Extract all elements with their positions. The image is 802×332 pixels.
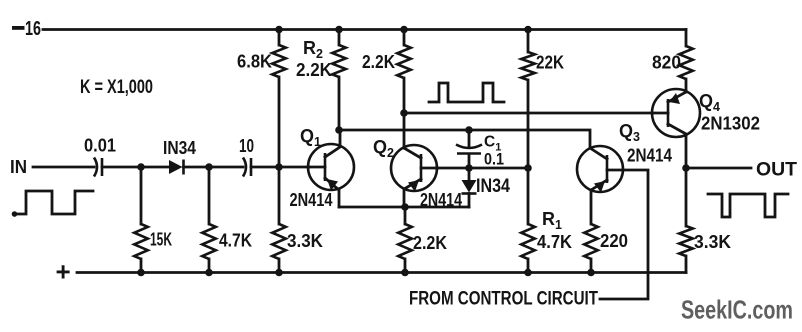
wire Q1 collector to C1 to Q3 collector bbox=[339, 130, 590, 148]
svg-text:6.8K: 6.8K bbox=[237, 52, 272, 72]
capacitor C1 0.1 bbox=[456, 134, 504, 169]
output waveform symbol bbox=[708, 194, 788, 217]
node junction emitters-2.2K bbox=[401, 203, 409, 211]
svg-text:2.2K: 2.2K bbox=[362, 52, 395, 72]
transistor Q1 2N414 bbox=[290, 126, 355, 210]
svg-text:IN34: IN34 bbox=[476, 176, 510, 197]
wire OUT lead bbox=[686, 167, 751, 170]
control pulse waveform symbol bbox=[429, 83, 504, 102]
resistor R2 2.2K bbox=[296, 38, 346, 80]
wire R1 bottom lead bbox=[527, 259, 530, 273]
resistor 2.2K emitter bbox=[398, 224, 447, 259]
svg-text:FROM CONTROL CIRCUIT: FROM CONTROL CIRCUIT bbox=[409, 289, 598, 310]
wire bottom + rail bbox=[77, 271, 686, 274]
wire C1 to diode bbox=[468, 155, 471, 180]
resistor 6.8K bbox=[237, 45, 286, 77]
wire 6.8K top lead bbox=[278, 30, 281, 46]
node junction IN-4.7K bbox=[205, 163, 213, 171]
node junction Q2 base wire bbox=[465, 164, 473, 172]
svg-text:2N414: 2N414 bbox=[290, 190, 333, 210]
resistor 2.2K collector load bbox=[362, 45, 411, 78]
input square wave symbol bbox=[14, 191, 93, 214]
wire 15K top lead bbox=[140, 167, 143, 224]
wire Q3 base to control circuit bbox=[600, 170, 648, 299]
svg-text:IN: IN bbox=[10, 157, 27, 177]
node junction rail-R2 bbox=[335, 26, 343, 34]
wire 6.8K to Q1 base node bbox=[278, 77, 281, 167]
wire IN lead bbox=[33, 166, 94, 169]
wire cap to diode bbox=[102, 166, 170, 169]
wire 15K bottom lead bbox=[140, 259, 143, 273]
node junction IN-15K bbox=[137, 163, 145, 171]
node junction Q1 collector bbox=[335, 126, 343, 134]
wire Q2 base to 22K node bbox=[437, 167, 528, 170]
capacitor 10 bbox=[239, 136, 254, 177]
svg-text:OUT: OUT bbox=[756, 160, 797, 181]
svg-text:4.7K: 4.7K bbox=[537, 232, 572, 252]
svg-text:3.3K: 3.3K bbox=[694, 232, 731, 252]
wire 4.7K top lead bbox=[208, 167, 211, 224]
wire 3.3K top lead bbox=[278, 167, 281, 224]
node junction Q1 base bbox=[275, 163, 283, 171]
resistor 3.3K output bbox=[679, 226, 731, 256]
svg-text:K = X1,000: K = X1,000 bbox=[80, 77, 153, 98]
node junction Q2 base-22K bbox=[524, 164, 532, 172]
svg-text:2N414: 2N414 bbox=[420, 190, 462, 210]
resistor 820 bbox=[652, 46, 693, 79]
wire diode to cap 10 bbox=[184, 166, 244, 169]
wire 22K to Q2 base node bbox=[527, 80, 530, 168]
node junction C1 top bbox=[465, 126, 473, 134]
wire 2.2K to Q2 collector bbox=[403, 78, 406, 148]
wire 2.2K emitter bottom lead bbox=[404, 259, 407, 273]
svg-text:0.1: 0.1 bbox=[484, 150, 504, 169]
resistor 220 bbox=[584, 224, 628, 259]
diode IN34 clamp bbox=[462, 176, 511, 197]
svg-text:15K: 15K bbox=[150, 230, 172, 250]
node junction OUT bbox=[682, 164, 690, 172]
transistor Q3 2N414 bbox=[577, 121, 672, 224]
svg-text:0.01: 0.01 bbox=[84, 136, 116, 156]
node junction rail-220 bbox=[587, 269, 595, 277]
svg-text:SeekIC.com: SeekIC.com bbox=[681, 295, 793, 325]
wire 2.2K emitter top lead bbox=[404, 207, 407, 224]
resistor 22K bbox=[521, 52, 564, 80]
diode IN34 input bbox=[163, 138, 196, 175]
wire to R1 bbox=[527, 168, 530, 224]
wire R2 top lead bbox=[338, 30, 341, 46]
wire R2 to Q1 collector node bbox=[338, 77, 341, 130]
wire 820 to Q4 emitter bbox=[685, 79, 688, 92]
svg-text:2N414: 2N414 bbox=[627, 146, 672, 166]
wire 4.7K bottom lead bbox=[208, 259, 211, 273]
wire 3.3K bottom lead bbox=[685, 256, 688, 273]
node -16 supply label bbox=[12, 18, 41, 40]
svg-text:16: 16 bbox=[25, 18, 41, 40]
wire Q1 Q2 emitter line bbox=[339, 206, 469, 209]
svg-text:2.2K: 2.2K bbox=[413, 233, 447, 253]
wire 220 bottom lead bbox=[590, 259, 593, 273]
node junction rail-R1 bbox=[524, 269, 532, 277]
node junction rail-2.2K emitter bbox=[401, 269, 409, 277]
node junction rail-15K bbox=[137, 269, 145, 277]
node junction Q2 collector bbox=[400, 109, 408, 117]
svg-text:10: 10 bbox=[239, 136, 254, 156]
wire OUT to 3.3K bbox=[685, 168, 688, 226]
transistor Q2 2N414 bbox=[373, 137, 462, 210]
wire cap 10 to Q1 base bbox=[251, 166, 309, 169]
wire 2.2K top lead bbox=[403, 30, 406, 46]
resistor 3.3K left bbox=[272, 224, 323, 259]
wire 820 top lead bbox=[685, 30, 688, 47]
svg-text:22K: 22K bbox=[536, 53, 564, 73]
wire 3.3K bottom lead bbox=[278, 259, 281, 273]
node junction rail-22K bbox=[524, 26, 532, 34]
wire 22K top lead bbox=[527, 30, 530, 53]
wire Q2 collector to Q4 base bbox=[404, 112, 652, 115]
svg-text:2N1302: 2N1302 bbox=[701, 114, 760, 134]
svg-text:+: + bbox=[56, 257, 71, 287]
svg-text:220: 220 bbox=[600, 231, 628, 251]
node junction rail-3.3K bbox=[275, 269, 283, 277]
node junction rail-6.8K bbox=[275, 26, 283, 34]
transistor Q4 2N1302 bbox=[652, 89, 760, 168]
wire diode to emitter line bbox=[468, 194, 471, 208]
resistor R1 4.7K bbox=[521, 209, 572, 259]
svg-text:820: 820 bbox=[652, 53, 681, 73]
resistor 4.7K input bbox=[202, 224, 252, 259]
svg-text:IN34: IN34 bbox=[163, 138, 196, 158]
svg-text:4.7K: 4.7K bbox=[219, 231, 252, 251]
svg-text:2.2K: 2.2K bbox=[296, 60, 332, 80]
node junction rail-2.2K bbox=[400, 26, 408, 34]
wire C1 top lead bbox=[468, 130, 471, 146]
resistor 15K bbox=[134, 224, 172, 259]
node junction rail-4.7K bbox=[205, 269, 213, 277]
svg-text:3.3K: 3.3K bbox=[287, 231, 323, 251]
wire top -16 rail bbox=[43, 28, 686, 31]
capacitor 0.01 bbox=[84, 136, 116, 177]
